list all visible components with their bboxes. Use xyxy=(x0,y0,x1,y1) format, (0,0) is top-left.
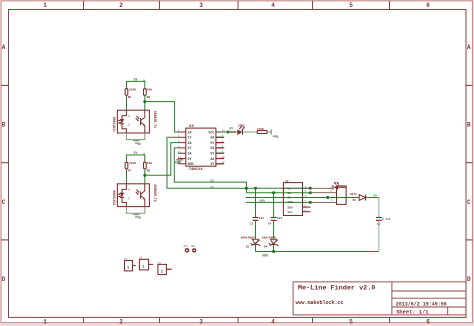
svg-text:2Y: 2Y xyxy=(188,146,192,150)
wire C3 to D3 xyxy=(255,220,257,239)
wire D3 to ground rail xyxy=(255,245,257,252)
svg-text:Me-Line Finder v2.0: Me-Line Finder v2.0 xyxy=(298,285,376,293)
svg-text:Sheet: 1/1: Sheet: 1/1 xyxy=(396,309,428,315)
resistor R5 xyxy=(125,89,136,100)
svg-text:3Y: 3Y xyxy=(188,157,192,161)
wire net S2 from 2Y xyxy=(174,148,246,193)
wire sensor2 output to 74HC14 2A xyxy=(145,143,178,176)
svg-text:5V: 5V xyxy=(373,193,377,197)
svg-text:GND: GND xyxy=(175,161,181,165)
svg-text:R5: R5 xyxy=(128,96,132,99)
svg-text:GND: GND xyxy=(262,253,268,257)
svg-text:4: 4 xyxy=(271,2,275,9)
svg-text:5V: 5V xyxy=(229,127,233,131)
wire D1 to 5V corner xyxy=(366,198,379,218)
svg-text:220R: 220R xyxy=(129,162,136,165)
svg-text:5A: 5A xyxy=(210,146,214,150)
node 5V row junction xyxy=(326,196,329,199)
wire S1 row to header xyxy=(310,187,332,189)
wire GND row to header xyxy=(310,201,336,203)
svg-text:U3: U3 xyxy=(189,125,194,129)
resistor R8 xyxy=(144,162,153,173)
svg-text:C: C xyxy=(2,199,6,206)
ground sensor2 xyxy=(133,213,141,220)
svg-text:www.makeblock.cc: www.makeblock.cc xyxy=(296,300,344,306)
svg-text:2A: 2A xyxy=(188,141,192,145)
svg-text:D4: D4 xyxy=(264,246,268,249)
svg-text:R8: R8 xyxy=(147,170,151,173)
svg-text:104: 104 xyxy=(277,217,282,220)
connector J2 RJ25 xyxy=(283,180,310,216)
pad P3 xyxy=(158,262,172,275)
capacitor C3 xyxy=(250,217,264,225)
svg-text:S1: S1 xyxy=(211,186,215,189)
label S1 xyxy=(211,186,215,189)
svg-text:1: 1 xyxy=(43,319,47,326)
supply 5V sensor2 xyxy=(134,151,144,155)
wire resistor outputs to sensor1 xyxy=(127,96,145,111)
diode D4 1N4148WS xyxy=(262,237,279,249)
ground rail label xyxy=(262,253,268,257)
svg-text:SENSOR-T1: SENSOR-T1 xyxy=(153,111,157,128)
svg-text:1: 1 xyxy=(127,267,129,271)
svg-text:3: 3 xyxy=(199,2,203,9)
mounting hole MH2 xyxy=(191,245,196,252)
svg-text:6A: 6A xyxy=(210,136,214,140)
node connector S1 junction xyxy=(309,187,312,190)
wire resistor outputs to sensor2 xyxy=(127,169,145,184)
wire sensor2 bottom to ground xyxy=(126,207,144,214)
svg-text:1N4148WS: 1N4148WS xyxy=(240,237,255,240)
sensor SENSOR-T2 TCRT5000 xyxy=(112,184,157,207)
svg-text:0.1uF: 0.1uF xyxy=(382,218,391,221)
svg-text:S2: S2 xyxy=(288,192,292,195)
svg-text:1N4148WS: 1N4148WS xyxy=(262,237,277,240)
svg-text:J2: J2 xyxy=(285,180,289,183)
resistor R4 470R xyxy=(257,128,267,133)
ground sensor1 xyxy=(133,140,141,147)
wire R4 to ground xyxy=(267,131,271,133)
svg-text:74HC14: 74HC14 xyxy=(189,168,204,172)
wire 5V rail sensor2 xyxy=(127,155,145,162)
svg-text:C3: C3 xyxy=(250,222,254,225)
node S2 drop junction xyxy=(245,187,248,190)
svg-text:10K: 10K xyxy=(147,162,152,165)
svg-text:3A: 3A xyxy=(188,152,192,156)
svg-text:5: 5 xyxy=(349,2,353,9)
svg-text:A: A xyxy=(467,44,471,51)
wire net S1 from 1Y to connector row xyxy=(167,137,310,188)
svg-text:LED2: LED2 xyxy=(238,124,245,127)
svg-text:4Y: 4Y xyxy=(210,162,214,166)
resistor R6 xyxy=(144,89,153,100)
svg-text:B: B xyxy=(467,122,471,129)
header J1 xyxy=(331,186,347,205)
wire net 5V row xyxy=(246,197,359,199)
svg-text:VCC: VCC xyxy=(208,130,214,134)
svg-text:1: 1 xyxy=(161,270,163,274)
node connector S2 junction xyxy=(309,191,312,194)
svg-text:S2: S2 xyxy=(211,180,215,183)
wire LED2 to R4 xyxy=(243,131,257,133)
node connector GND junction xyxy=(309,201,312,204)
svg-text:SCL: SCL xyxy=(288,211,294,214)
svg-text:5: 5 xyxy=(349,319,353,326)
wire ground rail xyxy=(256,251,379,253)
svg-text:R7: R7 xyxy=(128,170,132,173)
svg-text:4A: 4A xyxy=(210,157,214,161)
wire net GND row xyxy=(246,201,310,203)
svg-text:2013/6/2 19:49:56: 2013/6/2 19:49:56 xyxy=(396,301,447,307)
svg-text:TCRT5000: TCRT5000 xyxy=(112,117,116,132)
svg-text:470R: 470R xyxy=(257,128,264,131)
supply 5V at U3 xyxy=(228,127,236,132)
svg-text:6: 6 xyxy=(426,2,430,9)
wire C5 to ground rail xyxy=(378,220,380,251)
svg-text:5V: 5V xyxy=(134,151,138,155)
diode D1 SS12 xyxy=(350,193,366,202)
supply 5V sensor1 xyxy=(134,77,144,81)
svg-text:C: C xyxy=(467,199,471,206)
svg-text:3: 3 xyxy=(199,319,203,326)
svg-text:1A: 1A xyxy=(188,130,192,134)
wire S2 row to header xyxy=(310,192,336,194)
resistor R7 xyxy=(125,162,136,173)
sensor SENSOR-T1 TCRT5000 xyxy=(112,110,157,133)
wire 5V rail sensor1 xyxy=(127,81,145,88)
svg-text:6: 6 xyxy=(426,319,430,326)
svg-text:5V: 5V xyxy=(134,77,138,81)
svg-text:SDA: SDA xyxy=(288,206,294,209)
capacitor C4 xyxy=(268,217,282,225)
svg-text:5Y: 5Y xyxy=(210,152,214,156)
wire D4 to ground rail xyxy=(273,245,275,252)
svg-text:6Y: 6Y xyxy=(210,141,214,145)
ground after R4 xyxy=(271,129,279,139)
wire row1 overlap tint xyxy=(284,187,310,189)
node S2 cap branch junction xyxy=(272,191,275,194)
svg-text:GND: GND xyxy=(288,201,294,204)
svg-text:D: D xyxy=(2,276,6,283)
wire cap C3 branch xyxy=(255,188,257,217)
svg-text:104: 104 xyxy=(259,217,264,220)
node sensor1 output junction xyxy=(143,100,146,103)
diode D3 1N4148WS xyxy=(240,237,260,249)
wire U3 VCC to 5V xyxy=(222,131,229,133)
svg-text:1: 1 xyxy=(43,2,47,9)
svg-text:SENSOR-T2: SENSOR-T2 xyxy=(153,184,157,201)
capacitor C5 0.1uF xyxy=(376,218,391,227)
svg-text:GND: GND xyxy=(188,162,194,166)
svg-text:MH2: MH2 xyxy=(191,245,196,248)
ground U3 GND pin xyxy=(175,160,183,165)
svg-text:D1: D1 xyxy=(353,199,357,202)
svg-text:1: 1 xyxy=(142,266,144,270)
svg-text:MH1: MH1 xyxy=(184,245,189,248)
label S2 xyxy=(211,180,215,183)
svg-text:B: B xyxy=(2,122,6,129)
LED LED2 power indicator xyxy=(228,124,245,135)
supply 5V after D1 xyxy=(373,193,377,197)
svg-text:5V: 5V xyxy=(288,197,292,200)
wire net S2 row to connector xyxy=(246,192,310,194)
svg-text:GND: GND xyxy=(259,199,265,202)
op-amp U3 74HC14 xyxy=(178,125,225,172)
svg-text:1Y: 1Y xyxy=(188,136,192,140)
svg-text:R6: R6 xyxy=(147,96,151,99)
wire sensor1 bottom to ground xyxy=(126,133,144,140)
node VCC junction xyxy=(227,131,230,134)
LED LED1 line indicator xyxy=(333,182,346,190)
svg-text:10K: 10K xyxy=(147,89,152,92)
svg-text:4: 4 xyxy=(271,319,275,326)
wire sensor1 output to 74HC14 1A xyxy=(145,102,178,132)
label GND row xyxy=(259,199,265,202)
svg-text:A: A xyxy=(2,44,6,51)
mounting hole MH1 xyxy=(184,245,189,252)
node ground rail junction xyxy=(272,250,275,253)
pad P1 xyxy=(125,258,136,271)
pad P2 xyxy=(139,257,153,270)
svg-text:TCRT5000: TCRT5000 xyxy=(112,190,116,205)
svg-text:220R: 220R xyxy=(129,89,136,92)
wire cap C4 branch xyxy=(273,193,275,218)
node S1 cap branch junction xyxy=(254,187,257,190)
wire C4 to D4 xyxy=(273,220,275,239)
node sensor2 output junction xyxy=(143,174,146,177)
svg-text:2: 2 xyxy=(119,2,123,9)
svg-text:SS12: SS12 xyxy=(350,193,357,196)
svg-text:D3: D3 xyxy=(246,246,250,249)
svg-text:2: 2 xyxy=(119,319,123,326)
svg-text:C4: C4 xyxy=(268,222,272,225)
svg-text:D: D xyxy=(467,276,471,283)
